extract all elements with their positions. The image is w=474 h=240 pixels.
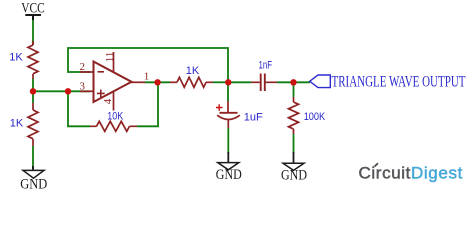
node A junction dot: [30, 88, 36, 94]
wire node C to R4: [293, 85, 295, 97]
wire node A to pin 3: [33, 90, 90, 92]
wire output to R3: [145, 81, 170, 83]
wire node C to port: [294, 81, 311, 83]
svg-text:1uF: 1uF: [244, 112, 263, 124]
ground GND (left): [20, 166, 47, 193]
ground GND (middle): [216, 152, 242, 183]
ground GND (right): [281, 152, 307, 184]
pin 11 stub: [113, 52, 115, 72]
svg-text:1nF: 1nF: [259, 60, 273, 72]
op-amp U1: [80, 52, 150, 111]
VCC power symbol: [21, 1, 45, 21]
svg-text:100K: 100K: [304, 111, 326, 123]
pin 2 stub: [80, 71, 94, 73]
CircuitDigest logo: [359, 163, 463, 182]
svg-text:CircuitDigest: CircuitDigest: [359, 164, 463, 183]
output stub: [132, 81, 146, 83]
node B junction dot: [225, 79, 231, 85]
wire node A2 down to 10K feedback: [68, 91, 90, 126]
wire C1 to GND: [227, 128, 229, 153]
resistor R5 10K (horizontal feedback): [90, 111, 137, 132]
capacitor C1 1uF (polarized): [216, 85, 263, 128]
output port symbol: [310, 75, 331, 88]
svg-text:4: 4: [102, 98, 114, 104]
svg-text:3: 3: [80, 80, 86, 92]
wire R1 to node A: [32, 79, 34, 91]
triangle body: [94, 62, 132, 103]
plus polarity mark: [216, 104, 223, 111]
plus symbol: [97, 90, 105, 98]
resistor R1 1K (vertical): [9, 41, 38, 79]
svg-text:1K: 1K: [9, 52, 23, 64]
output junction dot: [154, 79, 160, 85]
capacitor C2 1nF: [251, 60, 277, 92]
wire 10K to output node: [137, 82, 158, 126]
wire R4 to GND: [293, 134, 295, 153]
wire pin2 loop: pin2 left, up, top rail, down to node B: [68, 48, 228, 82]
pin 3 stub: [80, 90, 94, 92]
svg-text:11: 11: [104, 52, 116, 63]
wire R2 to GND: [32, 146, 34, 169]
wire VCC to R1: [32, 20, 34, 45]
node A2 junction dot: [65, 88, 71, 94]
wire node A to R2: [32, 91, 34, 103]
wire node B to C2: [228, 81, 251, 83]
svg-text:GND: GND: [20, 177, 47, 192]
svg-text:10K: 10K: [107, 111, 124, 123]
resistor R2 1K (vertical): [10, 103, 38, 146]
svg-text:TRIANGLE WAVE OUTPUT: TRIANGLE WAVE OUTPUT: [332, 74, 466, 91]
resistor R4 100K (vertical): [289, 97, 326, 134]
svg-text:1: 1: [144, 71, 150, 83]
svg-text:GND: GND: [216, 167, 242, 183]
accent over first i: [375, 163, 379, 166]
wire R3 to node B: [213, 81, 228, 83]
wire C2 to node C: [277, 81, 294, 83]
svg-text:1K: 1K: [186, 65, 200, 77]
svg-text:GND: GND: [281, 168, 307, 184]
node C junction dot: [290, 79, 296, 85]
minus symbol: [98, 71, 105, 73]
svg-text:2: 2: [80, 61, 86, 73]
svg-text:1K: 1K: [10, 118, 24, 130]
pin 4 stub: [113, 92, 115, 111]
resistor R3 1K (horizontal): [170, 65, 213, 87]
